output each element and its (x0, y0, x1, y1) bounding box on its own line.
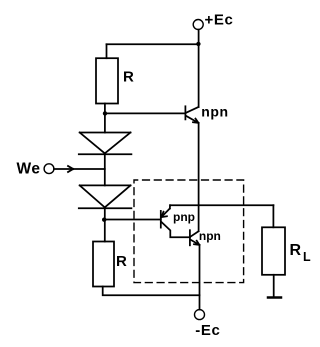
svg-text:pnp: pnp (173, 210, 195, 224)
wire: down to RL top (272, 205, 274, 227)
terminal We (44, 164, 54, 174)
wire: R bottom to diode D1 (104, 104, 106, 133)
junction: top supply node (196, 42, 200, 46)
wire: Q3 emitter down to -Ec (199, 245, 201, 310)
svg-text:+Ec: +Ec (205, 12, 234, 29)
resistor RL (262, 227, 285, 274)
resistor R (bottom) (93, 242, 114, 287)
wire: output node to RL (170, 204, 273, 206)
dashed box (134, 180, 244, 283)
wire: Q2 base (105, 219, 161, 221)
transistor Q3 npn (190, 230, 200, 245)
svg-text:npn: npn (199, 229, 221, 243)
wire: RL to ground (273, 275, 275, 296)
svg-text:R: R (290, 242, 302, 259)
terminal +Ec (193, 20, 203, 30)
wire: +Ec down to Q1 collector (198, 30, 200, 107)
svg-text:-Ec: -Ec (195, 322, 220, 339)
wire: top horizontal to R (107, 43, 199, 45)
transistor Q2 pnp (161, 205, 190, 237)
svg-text:npn: npn (201, 104, 228, 120)
svg-text:L: L (303, 250, 311, 264)
diode D1 (79, 133, 132, 155)
wire: D1 to D2 (104, 154, 106, 185)
resistor R (top) (96, 58, 118, 103)
svg-text:R: R (116, 253, 127, 270)
wire: D2 to R2 (104, 208, 106, 241)
svg-text:R: R (123, 68, 134, 85)
wire: down to R top (106, 44, 108, 58)
transistor Q1 npn (185, 106, 198, 123)
diode D2 (79, 185, 132, 208)
svg-text:We: We (17, 160, 41, 177)
ground (268, 296, 281, 299)
junction: Q1 base node (103, 111, 107, 115)
wire: Q1 base (105, 112, 185, 114)
junction: Q2 base node (102, 218, 106, 222)
wire: We input with arrow (54, 166, 105, 172)
wire: R2 bottom to -Ec rail (103, 287, 200, 296)
terminal -Ec (195, 310, 205, 320)
wire: Q1 emitter down to Q3 collector (198, 123, 200, 231)
